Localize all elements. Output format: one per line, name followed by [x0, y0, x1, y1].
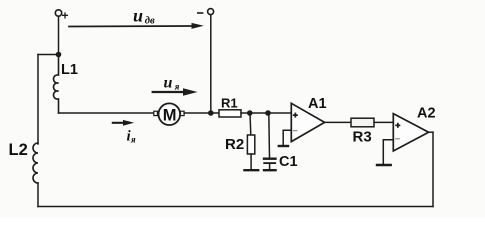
label A2 — [417, 105, 436, 121]
svg-text:я: я — [130, 135, 136, 145]
node B (minus-wire junction) — [208, 110, 214, 116]
node A (L1 top junction) — [56, 52, 62, 58]
svg-text:R1: R1 — [221, 96, 238, 111]
wire R1 to node C — [241, 112, 268, 114]
capacitor C1 — [264, 157, 276, 159]
svg-text:дв: дв — [145, 16, 155, 27]
wire node A to left rail — [38, 54, 59, 56]
svg-text:u: u — [133, 6, 143, 26]
resistor R1 — [219, 110, 241, 117]
motor letter M — [163, 106, 177, 124]
wire motor to node B — [184, 112, 219, 114]
inductor L1 — [54, 55, 59, 114]
arrow u_dv — [69, 25, 192, 28]
wire node D to A1 input — [268, 112, 291, 114]
wire R2 to ground — [250, 154, 252, 170]
svg-text:A2: A2 — [417, 105, 436, 121]
resistor R2 — [247, 135, 254, 154]
wire A2 output to right riser — [429, 131, 433, 133]
label L2 — [9, 141, 28, 159]
op-amp A1 — [291, 103, 324, 141]
node C (R2 tap) — [247, 110, 253, 116]
motor M brush right — [181, 111, 185, 115]
wire from - terminal down to main rail — [210, 15, 212, 113]
wire R3 to A2 input — [374, 121, 393, 123]
minus label — [197, 12, 203, 14]
label R1 — [221, 96, 238, 111]
node D (C1 tap) — [265, 110, 271, 116]
label R2 — [225, 136, 244, 153]
wire C1 to ground — [269, 164, 271, 170]
svg-text:u: u — [164, 75, 173, 92]
wire left rail upper — [37, 55, 39, 145]
wire left rail lower — [37, 183, 39, 207]
svg-text:L2: L2 — [9, 141, 28, 159]
label u_ya — [164, 75, 180, 92]
svg-text:L1: L1 — [61, 62, 78, 78]
plus label — [62, 9, 69, 23]
label u_dv — [133, 6, 155, 27]
arrow u_ya — [153, 91, 185, 93]
svg-text:C1: C1 — [279, 154, 298, 170]
ground (C1) — [264, 169, 276, 171]
wire node D down to C1 — [268, 113, 271, 158]
wire right riser down — [432, 132, 434, 206]
label R3 — [353, 129, 372, 146]
wire bottom rail — [38, 206, 433, 208]
resistor R3 — [351, 118, 374, 127]
terminal - (right) — [208, 9, 214, 15]
ground (A2) — [377, 164, 391, 166]
op-amp A2 — [393, 114, 428, 151]
wire A1 out to R3 — [325, 121, 351, 123]
arrow i_ya — [113, 122, 125, 124]
svg-text:+: + — [62, 9, 69, 23]
inductor L2 — [33, 143, 38, 183]
svg-text:R3: R3 — [353, 129, 372, 146]
wire from + terminal down to node — [58, 16, 60, 54]
svg-text:R2: R2 — [225, 136, 244, 153]
label A1 — [308, 96, 327, 112]
svg-text:я: я — [174, 82, 180, 92]
svg-text:A1: A1 — [308, 96, 327, 112]
motor M circle — [159, 103, 181, 125]
ground stub (A2 inverting input) — [383, 140, 393, 165]
ground (R2) — [245, 169, 259, 171]
terminal + (left) — [55, 10, 61, 16]
motor M brush left — [154, 111, 158, 115]
label C1 — [279, 154, 298, 170]
svg-text:M: M — [163, 106, 177, 124]
ground (A1) — [279, 145, 288, 147]
wire node C down to R2 — [249, 113, 252, 135]
label L1 — [61, 62, 78, 78]
wire L1 bottom to motor — [59, 112, 154, 114]
ground stub (A1 inverting input) — [283, 130, 291, 146]
label i_ya — [127, 129, 137, 145]
